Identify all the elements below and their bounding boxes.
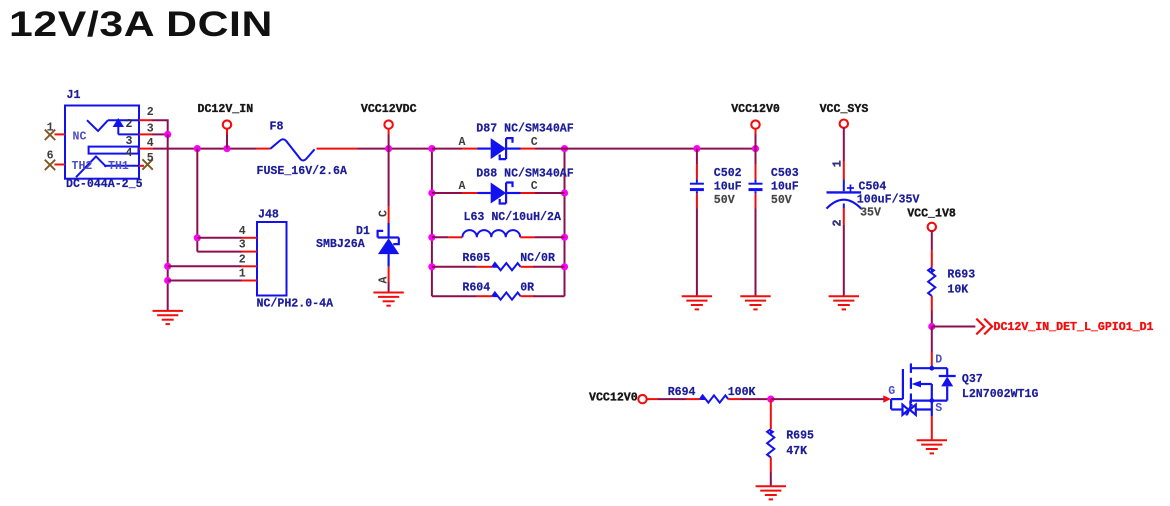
R605 right red stub [521, 266, 535, 268]
svg-text:3: 3 [239, 239, 246, 252]
junction dot left bus row1 [428, 145, 435, 152]
ground symbol under C502 [682, 296, 712, 309]
connector J1 body [65, 106, 139, 179]
L63 right red stub [520, 236, 534, 238]
svg-text:C: C [531, 136, 538, 149]
wire C503 bottom to ground [755, 209, 757, 297]
junction dot main wire to J48 branch [194, 145, 201, 152]
D1 cathode stub red [388, 206, 390, 223]
svg-text:VCC12V0: VCC12V0 [731, 103, 780, 116]
svg-text:A: A [459, 180, 466, 193]
R694 right red stub [728, 398, 741, 400]
J1 pin 1 no-connect X [45, 130, 55, 140]
junction dot C502 [693, 145, 700, 152]
power pin circle DC12V_IN [223, 120, 231, 128]
L63 left red stub [448, 236, 462, 238]
J48 pin 3 stub [242, 251, 258, 253]
R695 top red stub [770, 399, 772, 429]
svg-text:DC12V_IN_DET_L_GPIO1_D1: DC12V_IN_DET_L_GPIO1_D1 [994, 321, 1154, 334]
svg-text:R605: R605 [462, 252, 490, 265]
svg-text:C503: C503 [771, 167, 799, 180]
wire R604 row left [432, 295, 477, 297]
D88 left red stub [462, 192, 478, 194]
gate input red arrow [883, 395, 891, 403]
stub DC12V_IN circle to wire (red part) [226, 129, 228, 135]
svg-text:J48: J48 [258, 209, 279, 222]
wire to J48 pin2 [168, 265, 242, 267]
svg-text:DC-044A-2_5: DC-044A-2_5 [66, 178, 143, 191]
svg-text:50V: 50V [714, 194, 735, 207]
resistor R694 [700, 395, 728, 402]
svg-text:L63 NC/10uH/2A: L63 NC/10uH/2A [464, 211, 561, 224]
svg-text:TH2: TH2 [72, 160, 93, 173]
svg-text:F8: F8 [270, 120, 284, 133]
ground symbol under Q37 [917, 440, 947, 453]
diode block right bus wire [564, 149, 566, 297]
C503 bottom red stub [755, 194, 757, 209]
D1 anode stub red [388, 267, 390, 282]
wire fuse to diodes [358, 148, 432, 150]
svg-text:VCC12V0: VCC12V0 [589, 392, 638, 405]
wire R605 row right [534, 266, 565, 268]
junction dot gnd wire J48 pin1 [164, 277, 171, 284]
svg-text:SMBJ26A: SMBJ26A [316, 238, 365, 251]
capacitor C502 [690, 179, 704, 193]
schottky diode D87 [478, 138, 521, 159]
wire C504 to ground [843, 225, 845, 296]
svg-text:50V: 50V [771, 194, 792, 207]
ground symbol under C503 [740, 296, 770, 309]
wire VCC12V0 to R694 (maroon) [647, 398, 658, 400]
wire junction down to Q37 (maroon) [931, 327, 933, 353]
svg-text:FUSE_16V/2.6A: FUSE_16V/2.6A [257, 165, 347, 178]
connector J48 body [257, 222, 287, 296]
R693 bottom red stub [931, 296, 933, 311]
C503 top red stub [755, 164, 757, 179]
wire R605 row left [432, 266, 477, 268]
junction dot left bus row L63 [428, 234, 435, 241]
svg-text:12V/3A DCIN: 12V/3A DCIN [9, 5, 273, 44]
svg-text:D88 NC/SM340AF: D88 NC/SM340AF [476, 167, 573, 180]
svg-text:A: A [459, 136, 466, 149]
junction dot C503 [752, 145, 759, 152]
wire D87 row right [535, 148, 565, 150]
svg-text:R604: R604 [462, 282, 490, 295]
svg-text:TH1: TH1 [108, 160, 129, 173]
R604 left red stub [477, 295, 493, 297]
wire junction to Q37 gate [771, 398, 884, 400]
ground symbol under R695 [756, 486, 786, 499]
svg-text:4: 4 [239, 225, 246, 238]
junction dot detect node [928, 323, 935, 330]
J48 pin 4 stub [242, 237, 258, 239]
svg-text:L2N7002WT1G: L2N7002WT1G [962, 388, 1039, 401]
J1 pin 6 stub [55, 164, 66, 166]
svg-text:C: C [378, 210, 391, 217]
ground symbol under J1 [153, 311, 183, 324]
D87 right red stub [521, 148, 536, 150]
svg-text:1: 1 [239, 268, 246, 281]
wire VCC_1V8 down (maroon) [931, 231, 933, 251]
wire to J48 pin4 [197, 237, 241, 239]
junction dot gnd wire J48 pin2 [164, 263, 171, 270]
svg-text:R695: R695 [786, 430, 814, 443]
svg-text:C: C [531, 180, 538, 193]
J1 pin 5 stub [139, 165, 144, 167]
power pin circle VCC_1V8 [928, 223, 936, 231]
wire C503 top (maroon) [755, 149, 757, 164]
svg-text:NC/PH2.0-4A: NC/PH2.0-4A [257, 298, 334, 311]
svg-text:2: 2 [832, 220, 845, 227]
inductor L63 [462, 230, 520, 237]
J1 pin 3 stub [139, 133, 152, 135]
ground symbol under C504 [829, 296, 859, 309]
svg-text:10uF: 10uF [771, 181, 799, 194]
fuse F8 left red stub [256, 148, 270, 150]
svg-text:S: S [935, 402, 942, 415]
wire L63 row right [534, 236, 564, 238]
wire J1 pin3 to junction [152, 133, 168, 135]
svg-text:6: 6 [47, 150, 54, 163]
junction dot VCC12VDC flag [385, 145, 392, 152]
svg-text:D: D [935, 353, 942, 366]
wire to J48 pin3 [197, 251, 241, 253]
J1 pin 2 stub [139, 119, 152, 121]
wire VCC12VDC down to D1 [388, 149, 390, 207]
junction dot left bus row D88 [428, 189, 435, 196]
J1 pin 1 stub [55, 133, 66, 135]
power pin circle VCC12VDC [384, 120, 392, 128]
svg-text:R693: R693 [947, 269, 975, 282]
wire main to J48 pin4 vertical [196, 149, 198, 252]
resistor R605 [492, 263, 520, 270]
junction dot right bus row L63 [561, 234, 568, 241]
C504 pin 1 red stub [843, 161, 845, 180]
ground symbol under D1 [373, 293, 403, 306]
C502 bottom red stub [696, 194, 698, 209]
transistor Q37 MOSFET symbol [891, 363, 956, 416]
wire main 12V horizontal from J1 pin4 to fuse [153, 148, 256, 150]
wire R695 to ground [770, 472, 772, 486]
svg-text:0R: 0R [520, 282, 534, 295]
diode block left bus wire [431, 149, 433, 297]
R604 right red stub [521, 295, 535, 297]
J48 pin 2 stub [242, 265, 258, 267]
svg-text:DC12V_IN: DC12V_IN [198, 103, 254, 116]
schottky diode D88 [478, 183, 521, 204]
junction dot main wire to DC12V_IN flag [223, 145, 230, 152]
wire D1 anode to ground [388, 282, 390, 293]
J48 pin 1 stub [242, 280, 258, 282]
svg-text:4: 4 [126, 147, 133, 160]
stub VCC12VDC circle to wire (maroon part) [388, 135, 390, 149]
junction dot right bus row R605 [561, 263, 568, 270]
wire D88 row left [432, 192, 462, 194]
R694 left red stub [686, 398, 700, 400]
svg-text:5: 5 [147, 152, 154, 165]
stub VCC12V0 circle (red part) [755, 129, 757, 135]
J1 pin 5 no-connect X [142, 159, 152, 169]
fuse F8 body [270, 139, 314, 160]
svg-text:NC: NC [73, 130, 87, 143]
resistor R604 [492, 292, 520, 299]
capacitor C503 [749, 179, 763, 193]
power pin circle VCC12V0 [751, 120, 759, 128]
wire L63 row left [432, 236, 448, 238]
wire R693 to junction [931, 311, 933, 327]
polarized capacitor C504 [827, 180, 862, 209]
R693 top red stub [931, 250, 933, 267]
svg-text:2: 2 [147, 106, 154, 119]
wire D88 row right [535, 192, 565, 194]
svg-text:1: 1 [47, 122, 54, 135]
svg-text:G: G [888, 385, 895, 398]
junction dot gate divider [767, 396, 774, 403]
D87 left red stub [462, 148, 478, 150]
svg-text:NC/0R: NC/0R [520, 252, 555, 265]
power pin circle VCC12V0 gate divider [638, 395, 646, 403]
wire to J48 pin1 [168, 280, 242, 282]
wire J1 pin2 to pin3 junction [152, 120, 168, 134]
stub VCC12V0 circle (maroon part) [755, 135, 757, 149]
wire ground vertical from J1 pins 2/3 down to ground [167, 134, 169, 311]
Q37 drain red stub [931, 352, 933, 367]
junction dot J48 pin4 [194, 234, 201, 241]
svg-text:100uF/35V: 100uF/35V [857, 194, 920, 207]
wire junction to off-page chevron [932, 326, 976, 328]
svg-text:D87 NC/SM340AF: D87 NC/SM340AF [476, 123, 573, 136]
svg-text:2: 2 [239, 253, 246, 266]
wire D87 row left [432, 148, 462, 150]
svg-text:10K: 10K [947, 283, 968, 296]
svg-text:10uF: 10uF [714, 181, 742, 194]
svg-text:35V: 35V [860, 206, 881, 219]
junction dot pin2/3 [164, 131, 171, 138]
wire C502 top (maroon) [696, 149, 698, 164]
svg-text:Q37: Q37 [962, 373, 983, 386]
wire main diodes to caps [565, 148, 756, 150]
Q37 source red stub [931, 416, 933, 440]
stub VCC12VDC circle to wire (red part) [388, 129, 390, 135]
svg-text:VCC_1V8: VCC_1V8 [907, 207, 956, 220]
svg-text:J1: J1 [67, 89, 81, 102]
R605 left red stub [477, 266, 493, 268]
svg-text:VCC_SYS: VCC_SYS [820, 103, 869, 116]
wire R694 to junction [741, 398, 771, 400]
svg-text:100K: 100K [728, 386, 756, 399]
off-page connector chevron [976, 319, 992, 335]
junction dot right bus row D88 [561, 189, 568, 196]
svg-text:4: 4 [147, 137, 154, 150]
wire C502 bottom to ground [696, 209, 698, 297]
resistor R695 [767, 429, 775, 457]
svg-text:R694: R694 [668, 386, 696, 399]
svg-text:47K: 47K [786, 445, 807, 458]
J1 pin 4 stub [139, 148, 153, 150]
J1 pin 6 no-connect X [45, 160, 55, 170]
svg-text:C504: C504 [859, 181, 887, 194]
svg-text:VCC12VDC: VCC12VDC [361, 103, 417, 116]
resistor R693 [928, 268, 936, 296]
R695 bottom red stub [770, 457, 772, 472]
fuse F8 right red stub [317, 148, 358, 150]
svg-text:D1: D1 [356, 225, 370, 238]
svg-text:1: 1 [832, 160, 845, 167]
svg-text:C502: C502 [714, 167, 742, 180]
C504 pin 2 red stub [843, 208, 845, 225]
svg-text:2: 2 [126, 118, 133, 131]
wire R604 row right [534, 295, 565, 297]
TVS diode D1 symbol [378, 223, 400, 267]
C502 top red stub [696, 164, 698, 179]
junction dot right bus row1 [561, 145, 568, 152]
wire VCC_SYS to C504 (maroon) [843, 127, 845, 161]
stub DC12V_IN circle to wire (maroon part) [226, 135, 228, 149]
junction dot left bus row R605 [428, 263, 435, 270]
D88 right red stub [521, 192, 536, 194]
power pin circle VCC_SYS [840, 120, 848, 128]
